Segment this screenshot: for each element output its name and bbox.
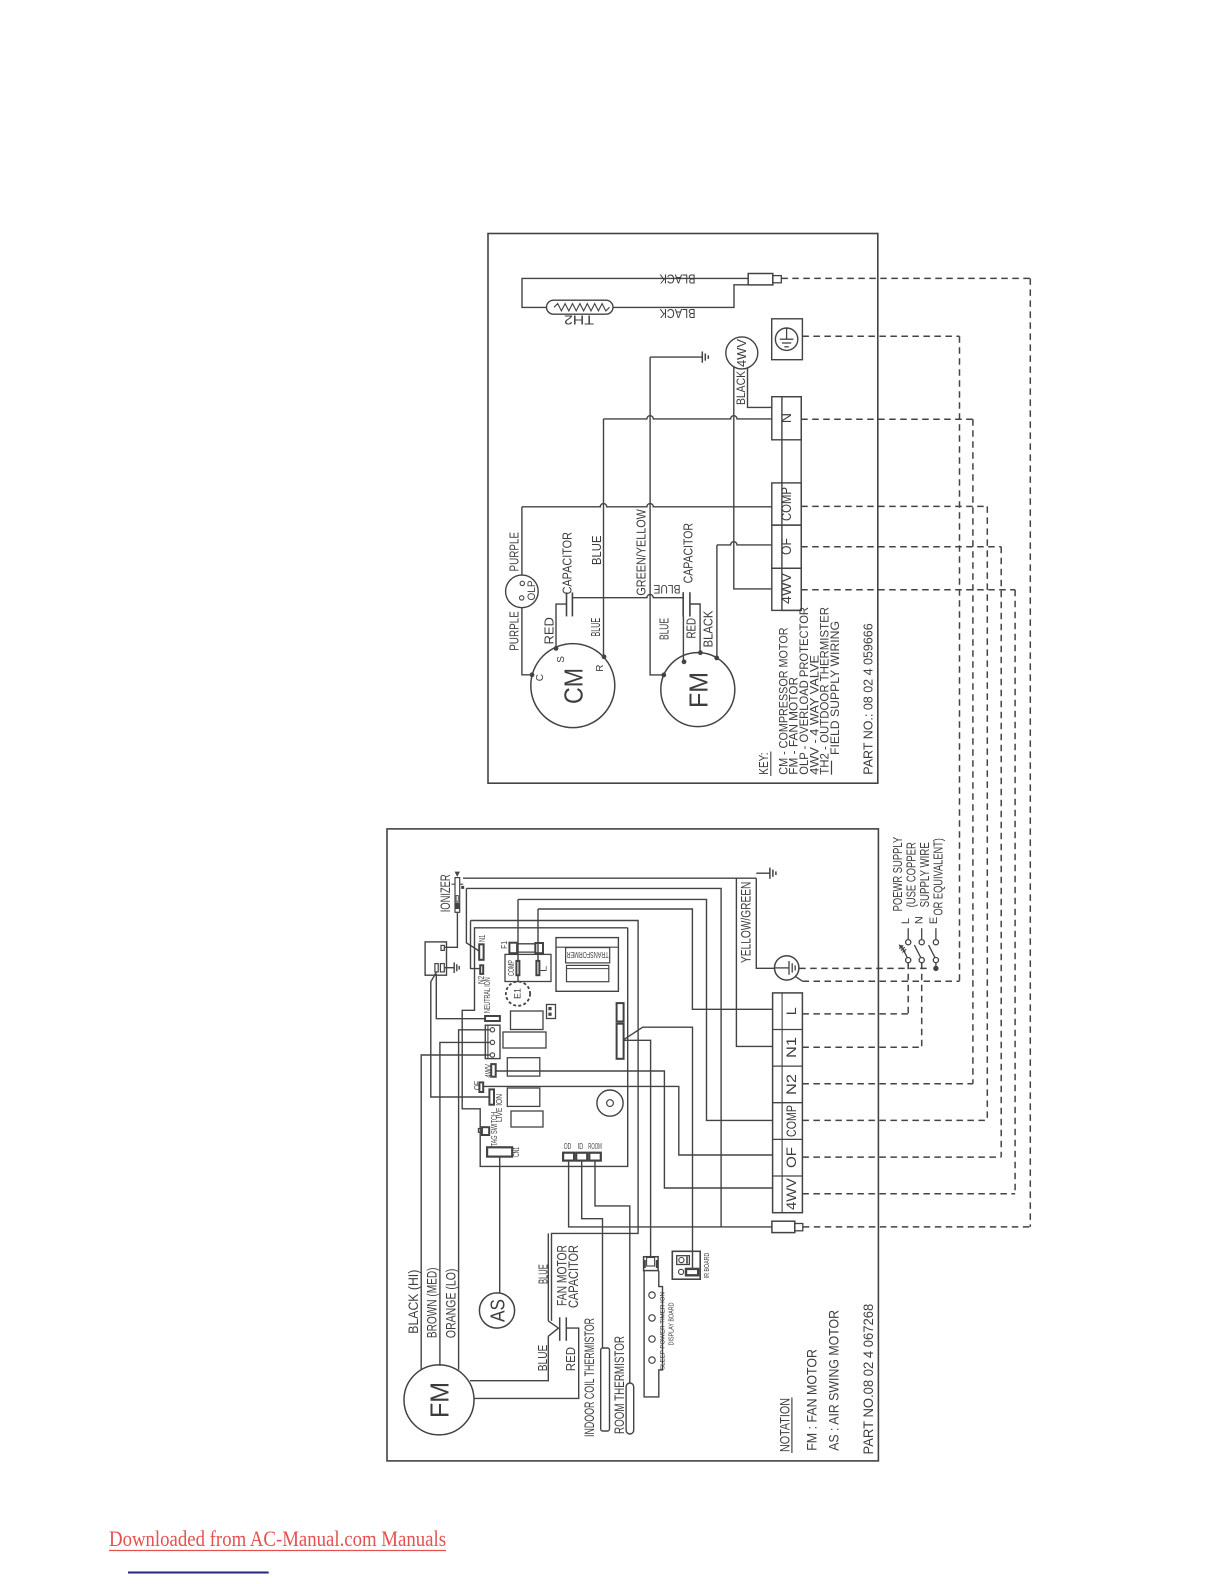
svg-text:TRANSFORMER: TRANSFORMER	[567, 950, 609, 960]
label BLUE FM	[656, 618, 671, 640]
dashed vertical OF	[1000, 547, 1002, 1157]
label ROOM	[588, 1142, 602, 1151]
wire OD to service plug	[569, 1161, 772, 1227]
dashed switch L lead	[802, 963, 908, 1014]
wire 4WV pad to 4WV terminal	[496, 1071, 773, 1188]
label N1 pad	[478, 934, 487, 942]
wire FM blue lead indoor	[470, 1336, 548, 1380]
footer link text	[109, 1526, 446, 1551]
terminal strip outdoor body	[782, 397, 801, 611]
svg-text:PURPLE: PURPLE	[506, 532, 521, 572]
wire PURPLE down to OLP	[521, 507, 523, 575]
terminal OF cell	[772, 525, 801, 568]
wire ID to indoor coil thermistor	[582, 1161, 603, 1348]
capacitor FM plates	[683, 592, 690, 616]
wire ionizer to connector	[444, 912, 457, 947]
relay block 4	[507, 1088, 540, 1106]
wire w2 to N1 pad	[466, 888, 479, 951]
wire GREEN/YELLOW vertical	[701, 356, 703, 358]
label NEUTRAL ION	[482, 977, 492, 1013]
fuse F1	[509, 943, 543, 954]
node FM green lead	[661, 673, 666, 678]
svg-text:CM: CM	[559, 668, 589, 704]
note SUPPLY WIRE	[918, 842, 932, 907]
svg-text:ROOM THERMISTOR: ROOM THERMISTOR	[611, 1336, 627, 1434]
svg-text:ID: ID	[578, 1142, 584, 1151]
svg-text:BLACK: BLACK	[734, 371, 748, 405]
dashed vertical COMP	[986, 506, 988, 1120]
svg-text:YELLOW/GREEN: YELLOW/GREEN	[739, 882, 754, 963]
label COMP pad	[506, 960, 516, 976]
label F1	[499, 941, 509, 949]
top diagram frame	[488, 234, 878, 784]
terminal strip indoor body	[773, 993, 803, 1213]
pad LIVE ION	[489, 1089, 494, 1104]
svg-text:N: N	[778, 413, 794, 423]
relay block 2	[503, 1032, 546, 1048]
overload protector OLP	[506, 575, 539, 608]
node S of CM	[554, 646, 559, 651]
svg-text:E1: E1	[513, 988, 523, 999]
wire 4WV coil left lead to 4WV terminal	[734, 367, 772, 589]
COMP L sub-board	[505, 954, 551, 981]
room thermistor capsule	[626, 1383, 634, 1434]
svg-text:BLUE: BLUE	[589, 535, 604, 565]
label L pad	[539, 965, 549, 972]
earth stub top right	[756, 868, 776, 879]
pad OD	[563, 1153, 574, 1161]
label N2 pad	[477, 975, 486, 984]
terminal divider below N2	[773, 1102, 803, 1104]
label OF pad	[472, 1081, 482, 1090]
label COMP terminal indoor	[783, 1105, 799, 1137]
svg-text:RED: RED	[683, 618, 698, 639]
svg-text:COMP: COMP	[506, 960, 516, 976]
relay block 5	[511, 1111, 543, 1127]
wire w1 ionizer/earth line	[463, 877, 756, 879]
svg-text:4WV: 4WV	[734, 339, 749, 367]
pad P2 right edge	[617, 1024, 624, 1059]
4-way valve coil 4WV	[726, 337, 758, 369]
svg-text:BLACK: BLACK	[659, 271, 695, 286]
label C	[535, 674, 546, 681]
node FM blue lead	[682, 659, 687, 664]
label OF terminal indoor	[783, 1147, 799, 1168]
LED ION	[649, 1292, 655, 1298]
switch pole L	[900, 918, 912, 963]
svg-text:L: L	[783, 1007, 799, 1015]
wire TH2 loop top (BLACK)	[522, 278, 748, 307]
OLP terminal pin lower	[520, 596, 524, 600]
wire w3 line	[471, 921, 639, 1321]
label BLUE FM cap	[654, 582, 681, 596]
label SLEEP POWER TIMER ION	[660, 1292, 667, 1370]
svg-text:GREEN/YELLOW: GREEN/YELLOW	[634, 509, 649, 596]
svg-text:R: R	[595, 665, 606, 672]
chassis ground symbol	[699, 352, 708, 363]
label GREEN/YELLOW	[634, 509, 649, 596]
svg-text:FM: FM	[684, 672, 714, 708]
indoor coil thermistor capsule	[601, 1348, 610, 1431]
relay block 1	[511, 1011, 544, 1030]
svg-text:CAPACITOR: CAPACITOR	[560, 532, 575, 594]
key line TH2	[818, 607, 832, 775]
svg-text:DISPLAY BOARD: DISPLAY BOARD	[667, 1302, 676, 1345]
label CAPACITOR FM	[681, 523, 696, 583]
svg-text:BLUE: BLUE	[656, 618, 671, 640]
svg-text:IR BOARD: IR BOARD	[704, 1253, 711, 1279]
label ROOM THERMISTOR	[611, 1336, 627, 1434]
thermistor TH2 zigzag element	[554, 304, 610, 311]
svg-text:BLACK: BLACK	[659, 306, 695, 321]
tag switch	[478, 1127, 489, 1135]
wire OF pad to OF terminal	[483, 1086, 772, 1155]
wire R-N (BLUE to N terminal)	[604, 416, 772, 419]
svg-text:ORANGE (LO): ORANGE (LO)	[442, 1269, 458, 1339]
label FM outdoor	[684, 672, 714, 708]
label E1	[513, 988, 523, 999]
svg-text:OF: OF	[472, 1081, 482, 1090]
note OR EQUIVALENT	[932, 838, 946, 915]
IR board led	[679, 1269, 684, 1274]
relay block 3	[507, 1058, 540, 1076]
label OLP	[526, 581, 538, 601]
label FM indoor	[425, 1382, 455, 1418]
fan motor FM outdoor	[661, 653, 735, 727]
earth terminal circle	[775, 328, 797, 350]
wire pin A to LIVE ION pad	[431, 972, 490, 1097]
svg-text:OD: OD	[564, 1142, 572, 1151]
ionizer electrode	[455, 872, 460, 913]
ground symbol ionizer	[454, 962, 459, 973]
terminal divider below N1	[773, 1065, 803, 1067]
label CAPACITOR CM	[560, 532, 575, 594]
earth circle indoor	[775, 956, 799, 980]
label IR BOARD	[704, 1253, 711, 1279]
terminal N cell	[772, 397, 801, 440]
pad 4WV indoor	[491, 1064, 496, 1077]
bottom diagram frame	[387, 829, 878, 1461]
svg-text:CN1: CN1	[511, 1147, 521, 1157]
LED SLEEP	[649, 1357, 655, 1363]
wire FM black lead to OF	[717, 542, 772, 658]
wire GREEN/YELLOW	[650, 357, 662, 675]
svg-text:AS: AS	[488, 1299, 510, 1322]
label IONIZER	[438, 874, 453, 912]
wire L pad to L terminal	[538, 909, 773, 1009]
terminal divider below L	[773, 1029, 803, 1031]
svg-text:FM: FM	[425, 1382, 455, 1418]
thermistor TH2 capsule	[547, 300, 614, 314]
pin MED	[490, 1040, 494, 1044]
wire P2 to IR board	[624, 1027, 692, 1269]
label TAG SWITCH	[489, 1112, 499, 1147]
transformer block	[556, 938, 618, 992]
service plug	[772, 1221, 803, 1232]
fan motor FM indoor	[404, 1365, 474, 1435]
dashed 4WV link top	[801, 589, 1015, 591]
svg-text:FIELD SUPPLY WIRING: FIELD SUPPLY WIRING	[828, 621, 842, 755]
part number indoor	[861, 1304, 876, 1455]
dashed vertical 4WV	[1014, 590, 1016, 1194]
wire FM blue lead	[682, 617, 684, 662]
label BLACK FM	[701, 610, 716, 647]
node E junction	[933, 966, 938, 971]
label BLACK (HI)	[405, 1270, 421, 1334]
control PCB outline	[462, 928, 628, 1167]
label COMP terminal	[778, 487, 794, 521]
display board connector	[644, 1257, 659, 1271]
dashed COMP link bottom	[802, 1119, 987, 1121]
OLP terminal pin upper	[520, 581, 524, 585]
capacitor CM plates	[567, 592, 573, 616]
svg-text:CAPACITOR: CAPACITOR	[681, 523, 696, 583]
key line CM	[776, 627, 790, 774]
svg-text:L: L	[539, 965, 549, 972]
label 4WV terminal indoor	[783, 1177, 799, 1210]
label TRANSFORMER	[567, 950, 609, 960]
compressor motor CM	[531, 644, 615, 728]
wire S to capacitor (RED)	[556, 604, 567, 648]
NOTATION heading	[777, 1398, 792, 1454]
svg-text:KEY:: KEY:	[757, 753, 771, 775]
wire 4WV coil right lead (BLACK) to N	[748, 368, 772, 408]
wire pin B to ground	[444, 967, 454, 969]
wire P2 to display board	[624, 1040, 651, 1256]
svg-text:BROWN (MED): BROWN (MED)	[424, 1268, 440, 1339]
dashed N2 link bottom	[802, 1083, 973, 1085]
notation FM	[805, 1349, 820, 1451]
wire COMP pad to COMP terminal	[518, 899, 773, 1120]
svg-text:E: E	[928, 917, 940, 924]
svg-text:INDOOR COIL THERMISTOR: INDOOR COIL THERMISTOR	[581, 1318, 597, 1437]
svg-text:OLP: OLP	[526, 581, 538, 601]
IR board connector	[686, 1269, 698, 1275]
key line field supply wiring	[828, 621, 842, 775]
label AS	[488, 1299, 510, 1322]
wire w1 down to earth circle	[756, 878, 774, 968]
wire blue to w3	[547, 1233, 549, 1321]
dashed switch N lead	[802, 963, 921, 1048]
dashed vertical N-N2	[972, 419, 974, 1084]
svg-text:PURPLE: PURPLE	[506, 611, 521, 651]
connector pin B	[440, 964, 444, 972]
switch pole N	[914, 916, 926, 963]
ionizer connector box	[425, 942, 446, 975]
wire ORANGE LO	[421, 1055, 490, 1370]
svg-text:N1: N1	[783, 1037, 799, 1058]
switch arrow	[899, 944, 907, 952]
note POEWR SUPPLY	[891, 836, 905, 911]
svg-text:NEUTRAL ION: NEUTRAL ION	[482, 977, 492, 1013]
part number outdoor	[861, 623, 876, 774]
dashed OF link bottom	[802, 1156, 1001, 1158]
pad N2	[480, 965, 483, 974]
label BLUE riser	[589, 535, 604, 565]
switch pole E	[928, 917, 940, 963]
connector pin A	[435, 964, 438, 972]
node C of CM	[530, 672, 535, 677]
label DISPLAY BOARD	[667, 1302, 676, 1345]
label ID	[578, 1142, 584, 1151]
svg-text:S: S	[556, 656, 567, 663]
label BROWN (MED)	[424, 1268, 440, 1339]
wire TH2 loop bottom (BLACK)	[613, 285, 748, 308]
svg-text:Downloaded from AC-Manual.com: Downloaded from AC-Manual.com Manuals	[109, 1526, 446, 1551]
label RED indoor	[563, 1347, 578, 1371]
pad L indoor	[536, 961, 539, 975]
dashed plug link bottom	[803, 1226, 1031, 1228]
label RED FM	[683, 618, 698, 639]
svg-text:OR EQUIVALENT): OR EQUIVALENT)	[932, 838, 946, 915]
label ORANGE (LO)	[442, 1269, 458, 1339]
svg-text:CAPACITOR: CAPACITOR	[565, 1245, 581, 1308]
pad ROOM	[589, 1153, 601, 1161]
svg-text:TAG SWITCH: TAG SWITCH	[489, 1112, 499, 1147]
label INDOOR COIL THERMISTOR	[581, 1318, 597, 1437]
KEY heading	[757, 752, 771, 777]
wire FM red lead indoor	[474, 1328, 579, 1398]
svg-text:TH2: TH2	[564, 312, 594, 327]
IR board outline	[672, 1251, 700, 1279]
key line OLP	[797, 607, 811, 775]
label OF terminal	[778, 538, 794, 555]
wire ROOM to room thermistor	[595, 1161, 630, 1383]
label L terminal	[783, 1007, 799, 1015]
svg-text:OF: OF	[778, 538, 794, 555]
svg-text:4WV: 4WV	[778, 572, 794, 604]
svg-text:ROOM: ROOM	[588, 1142, 602, 1151]
LED TIMER	[649, 1315, 655, 1321]
key line 4WV	[807, 655, 821, 775]
wire COMP line	[522, 504, 772, 507]
pad OF indoor	[479, 1082, 483, 1092]
pad ID	[576, 1153, 587, 1161]
terminal divider below COMP	[773, 1138, 803, 1140]
dashed N link top	[801, 418, 973, 420]
svg-text:OF: OF	[783, 1147, 799, 1168]
connector CN1	[487, 1147, 512, 1156]
dashed earth circle to switch E	[799, 967, 931, 969]
label CAPACITOR indoor	[565, 1245, 581, 1308]
pad P1 right edge	[617, 1003, 624, 1021]
svg-text:RED: RED	[542, 617, 557, 644]
wire w1 branch to N1 terminal	[736, 878, 772, 1046]
svg-text:C: C	[535, 674, 546, 681]
label CN1	[511, 1147, 521, 1157]
label TH2	[564, 312, 594, 327]
air swing motor AS	[479, 1293, 514, 1328]
capacitor FM indoor	[548, 1317, 566, 1341]
label BLACK lower	[659, 306, 695, 321]
label YELLOW/GREEN	[739, 882, 754, 963]
svg-text:IONIZER: IONIZER	[438, 874, 453, 912]
svg-text:N2: N2	[783, 1074, 799, 1095]
wire pin A to NEUTRAL ION pad	[436, 974, 485, 1019]
earth symbol indoor	[775, 961, 796, 975]
dashed OF link top	[801, 546, 1001, 548]
label LIVE ION	[494, 1094, 504, 1122]
dashed vertical plug	[1029, 278, 1031, 1227]
connector plug to outdoor sensor	[748, 274, 781, 285]
earth symbol in circle	[780, 328, 794, 347]
node R of CM	[602, 654, 607, 659]
wire CN1 to AS	[499, 1157, 501, 1293]
svg-text:BLUE: BLUE	[654, 582, 681, 596]
svg-text:FM : FAN MOTOR: FM : FAN MOTOR	[805, 1349, 820, 1451]
pin LO	[490, 1053, 494, 1057]
label N terminal	[778, 413, 794, 423]
svg-text:PART NO.08 02 4 067268: PART NO.08 02 4 067268	[861, 1304, 876, 1455]
node FM black lead	[714, 656, 719, 661]
wire COMP pad riser	[517, 899, 519, 961]
label BLACK upper	[659, 271, 695, 286]
label N2 terminal	[783, 1074, 799, 1095]
node FM red lead	[698, 650, 703, 655]
display board outline	[644, 1271, 662, 1397]
earth point E1	[506, 975, 530, 1006]
label 4WV coil	[734, 339, 749, 367]
label RED CM	[542, 617, 557, 644]
terminal 4WV cell	[772, 568, 801, 610]
terminal divider below OF	[773, 1175, 803, 1177]
svg-text:BLACK (HI): BLACK (HI)	[405, 1270, 421, 1334]
label 4WV pad	[483, 1064, 493, 1078]
wire capacitor link	[572, 595, 683, 598]
LED POWER	[649, 1336, 655, 1342]
notation AS	[827, 1310, 842, 1451]
dashed earth link top	[802, 335, 959, 337]
svg-text:(USE COPPER: (USE COPPER	[905, 842, 919, 907]
key line FM	[787, 677, 801, 775]
label R	[595, 665, 606, 672]
pad COMP indoor	[516, 961, 519, 975]
label 4WV terminal	[778, 572, 794, 604]
svg-text:BLUE: BLUE	[536, 1264, 551, 1284]
svg-text:COMP: COMP	[783, 1105, 799, 1137]
svg-text:SUPPLY WIRE: SUPPLY WIRE	[918, 842, 932, 907]
svg-text:4WV: 4WV	[783, 1177, 799, 1210]
wire to chassis ground	[650, 356, 699, 358]
label CM	[559, 668, 589, 704]
earth terminal box outdoor	[772, 319, 803, 360]
footer rule	[128, 1572, 269, 1574]
label S	[556, 656, 567, 663]
pad NEUTRAL ION	[485, 1016, 500, 1021]
wire FM red lead	[690, 604, 700, 653]
label PURPLE upper	[506, 532, 521, 572]
label BLACK 4WV lead	[734, 371, 748, 405]
svg-text:BLUE: BLUE	[588, 618, 603, 637]
svg-text:BLACK: BLACK	[701, 610, 716, 647]
svg-text:POEWR SUPPLY: POEWR SUPPLY	[891, 836, 905, 911]
wire BLACK HI	[459, 1030, 491, 1370]
wire BLUE vertical from R	[603, 419, 605, 657]
svg-text:COMP: COMP	[778, 487, 794, 521]
dashed vertical earth	[959, 336, 961, 981]
label BLUE lower	[535, 1344, 550, 1371]
connector pin top	[441, 945, 444, 950]
wire L pad riser	[537, 909, 539, 961]
2-pin jumper	[547, 1005, 556, 1019]
wire BROWN MED	[440, 1042, 490, 1365]
pad N1	[479, 944, 483, 960]
wire OLP to C terminal (PURPLE)	[522, 608, 530, 675]
dashed COMP link top	[801, 505, 987, 507]
wire w2 line	[466, 888, 721, 1227]
pin HI	[490, 1028, 494, 1032]
switch E lead	[935, 963, 937, 969]
